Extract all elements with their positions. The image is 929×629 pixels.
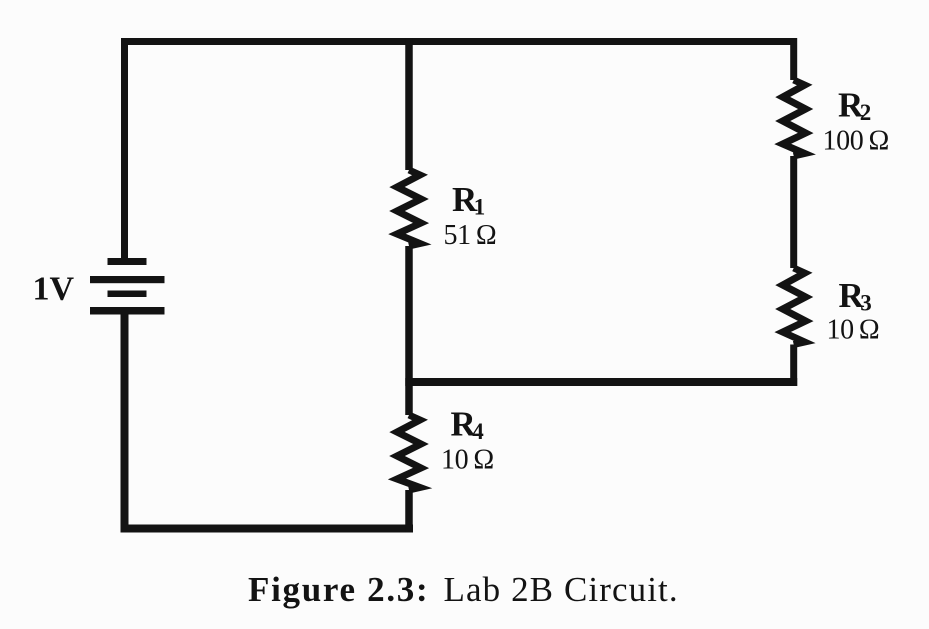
svg-text:Figure 2.3:: Figure 2.3:	[248, 570, 429, 609]
svg-text:R3: R3	[839, 276, 872, 316]
svg-text:10 Ω: 10 Ω	[441, 445, 494, 476]
svg-text:51 Ω: 51 Ω	[444, 220, 497, 251]
svg-text:Lab 2B Circuit.: Lab 2B Circuit.	[444, 570, 679, 609]
svg-text:R4: R4	[451, 405, 485, 445]
svg-text:10 Ω: 10 Ω	[827, 315, 880, 346]
svg-text:R2: R2	[838, 86, 871, 126]
svg-text:100 Ω: 100 Ω	[823, 126, 889, 157]
svg-text:R1: R1	[452, 180, 485, 220]
svg-text:1V: 1V	[33, 271, 75, 308]
